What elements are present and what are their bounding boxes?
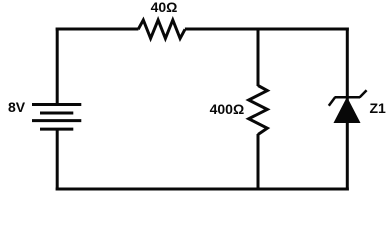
wire top horizontal right segment: [185, 28, 349, 31]
wire left vertical upper: [56, 28, 59, 105]
svg-text:40Ω: 40Ω: [151, 0, 178, 15]
battery B1 plate long top: [32, 103, 81, 106]
battery B1 plate short bottom: [40, 128, 73, 131]
wire middle vertical upper: [257, 28, 260, 87]
resistor R1 40ohm: [138, 20, 185, 38]
wire bottom horizontal: [56, 188, 349, 191]
zener diode Z1 cathode left bend: [329, 97, 336, 106]
resistor R2 400ohm: [249, 86, 268, 135]
svg-text:8V: 8V: [8, 99, 26, 115]
svg-text:Z1: Z1: [370, 100, 387, 116]
zener diode Z1 cathode bar: [335, 96, 360, 99]
zener diode Z1 cathode right bend: [360, 90, 367, 97]
battery B1 plate long lower: [32, 119, 81, 122]
wire left vertical lower: [56, 129, 59, 190]
zener diode Z1 triangle anode: [334, 98, 359, 123]
wire right vertical: [346, 28, 349, 191]
wire middle vertical lower: [257, 134, 260, 189]
battery B1 plate short upper: [40, 112, 73, 115]
wire top horizontal left segment: [56, 28, 139, 31]
svg-text:400Ω: 400Ω: [210, 101, 245, 117]
